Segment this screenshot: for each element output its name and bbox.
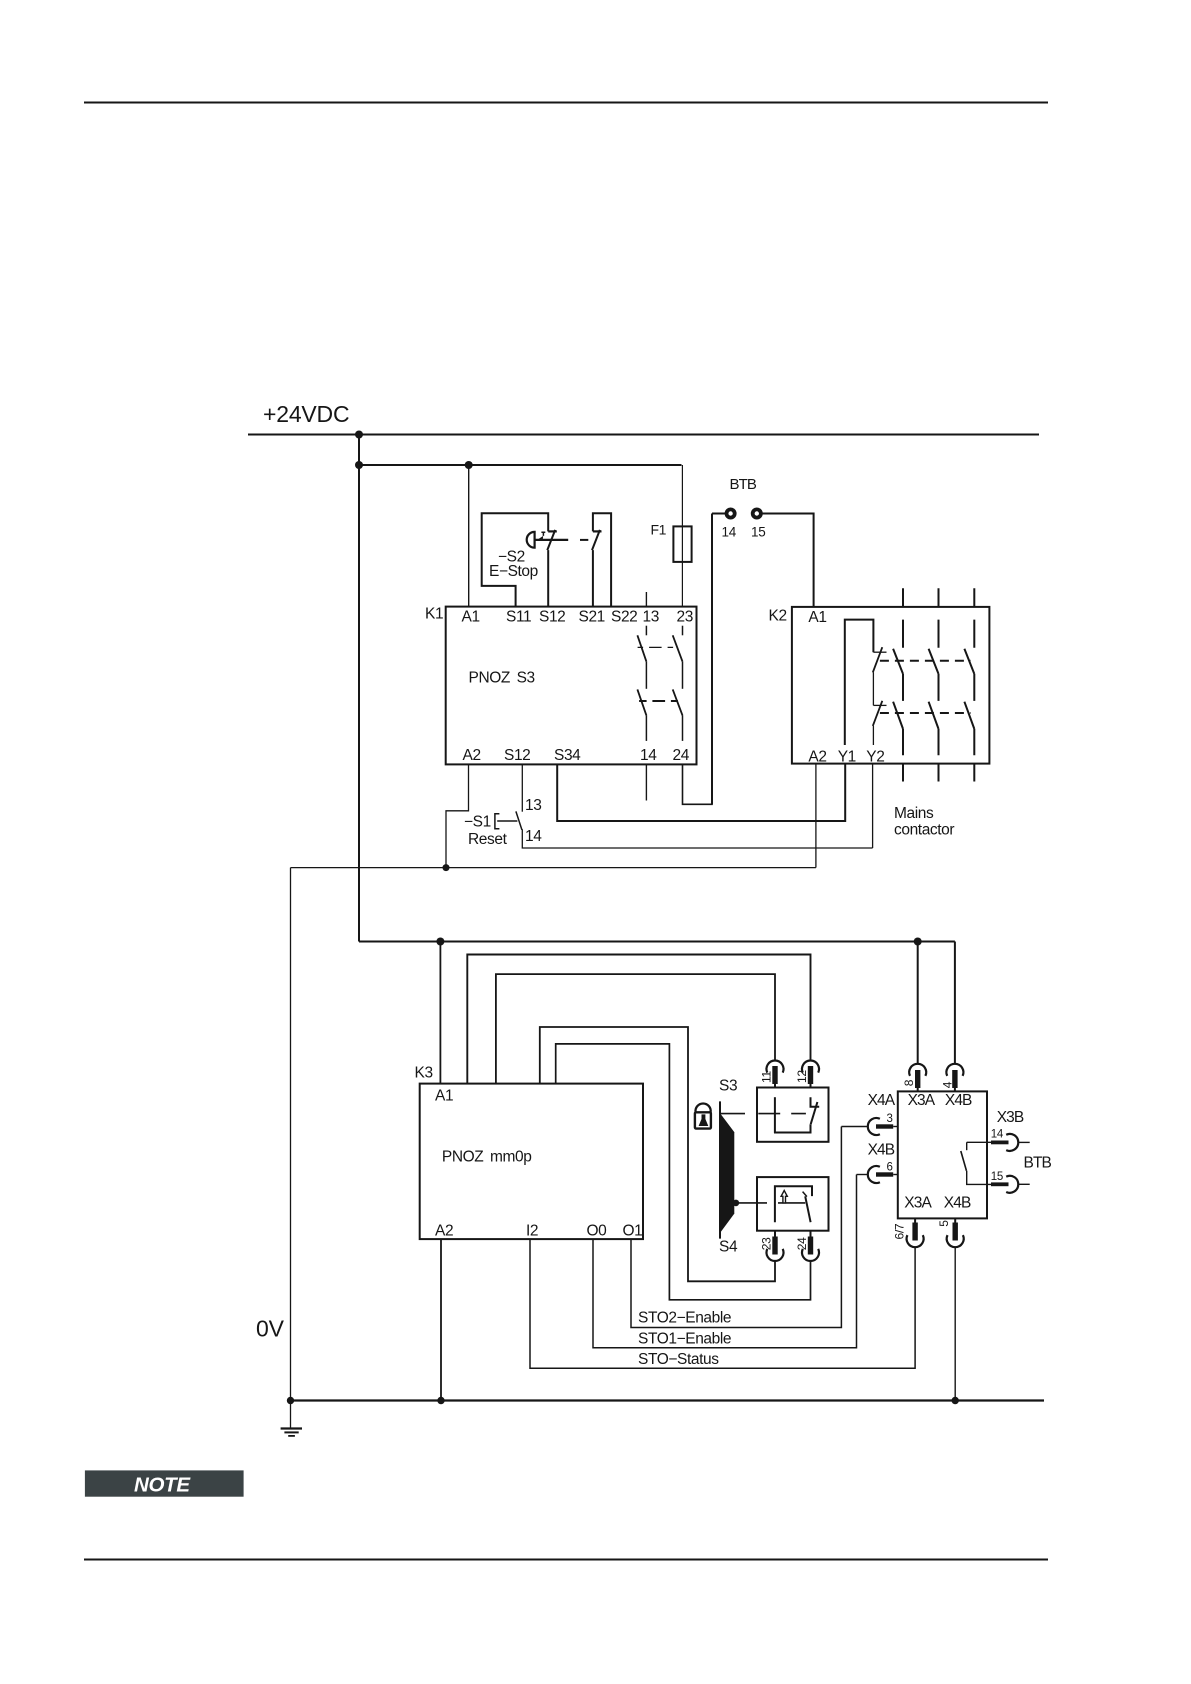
connector S4 pin 23 xyxy=(775,1231,811,1237)
wire K2 A2 drop xyxy=(815,764,817,868)
svg-text:0V: 0V xyxy=(256,1316,285,1342)
contact BTB inside drive xyxy=(967,1141,991,1143)
svg-text:contactor: contactor xyxy=(894,822,954,839)
contactor K2 box xyxy=(792,607,990,764)
svg-text:24: 24 xyxy=(673,747,690,764)
wire I2 STO-Status xyxy=(530,1239,915,1368)
svg-text:X3A: X3A xyxy=(904,1195,932,1212)
svg-text:14: 14 xyxy=(991,1128,1004,1140)
svg-text:I2: I2 xyxy=(526,1223,538,1240)
coil feedback path Y1 xyxy=(845,620,874,745)
contact K1 23-24 xyxy=(682,626,684,636)
svg-text:A1: A1 xyxy=(435,1088,453,1105)
wire 14 stub xyxy=(645,764,647,800)
svg-text:S22: S22 xyxy=(611,609,637,626)
svg-text:S4: S4 xyxy=(719,1239,738,1256)
svg-text:Reset: Reset xyxy=(468,831,508,848)
wire lower +24 branch xyxy=(359,941,955,943)
contact K1 13-14 xyxy=(645,592,647,607)
junction branch left xyxy=(355,461,363,469)
wire X4B-6 lead xyxy=(857,1174,869,1176)
svg-text:E−Stop: E−Stop xyxy=(489,563,538,580)
svg-text:K2: K2 xyxy=(769,608,787,625)
junction on +24VDC bus xyxy=(355,431,363,439)
svg-text:K1: K1 xyxy=(425,606,443,623)
wire branch bus y465 xyxy=(359,464,682,466)
svg-text:K3: K3 xyxy=(415,1065,433,1082)
svg-text:14: 14 xyxy=(640,747,657,764)
svg-text:NOTE: NOTE xyxy=(134,1474,191,1497)
pole 1 xyxy=(880,588,974,781)
lock icon xyxy=(695,1103,710,1112)
wire F1 drop to 23 xyxy=(681,465,683,607)
svg-text:23: 23 xyxy=(677,609,693,626)
svg-text:S3: S3 xyxy=(719,1078,737,1095)
wire O1 STO2-Enable xyxy=(631,1127,841,1328)
guard door line xyxy=(719,1101,721,1238)
drive box xyxy=(898,1091,987,1218)
svg-text:PNOZ mm0p: PNOZ mm0p xyxy=(442,1149,532,1166)
S3 actuator rod xyxy=(721,1113,806,1115)
svg-text:A1: A1 xyxy=(808,609,826,626)
connector X4B-4 xyxy=(946,1064,963,1076)
svg-text:X4B: X4B xyxy=(944,1195,971,1212)
S4 actuator rod with dot xyxy=(733,1200,740,1207)
svg-text:3: 3 xyxy=(887,1113,893,1125)
svg-text:S11: S11 xyxy=(506,609,531,626)
pole 2 xyxy=(929,588,939,781)
svg-text:15: 15 xyxy=(751,525,765,540)
svg-text:X4A: X4A xyxy=(868,1092,896,1109)
svg-text:6: 6 xyxy=(887,1161,893,1173)
contact S11-S12 xyxy=(548,530,557,532)
fuse F1 xyxy=(673,526,691,562)
connector S3 pin 11 xyxy=(767,1061,820,1073)
svg-text:A2: A2 xyxy=(808,749,826,766)
svg-text:X4B: X4B xyxy=(945,1092,972,1109)
connector X4B-6 xyxy=(868,1166,880,1183)
linkage dashes K2 xyxy=(880,660,971,662)
svg-text:O1: O1 xyxy=(623,1223,643,1240)
connector X3B-14 xyxy=(991,1141,1009,1145)
connector X3A-8 xyxy=(909,1064,926,1076)
connector X3A-6/7 xyxy=(915,1218,955,1222)
wire K3 to S4 23 xyxy=(540,1027,775,1281)
wire A2 rail xyxy=(291,867,816,869)
pole 3 xyxy=(964,588,974,781)
mushroom head xyxy=(527,532,535,548)
switch S3 guard box xyxy=(757,1088,829,1142)
svg-text:4: 4 xyxy=(940,1081,954,1088)
relay K1 PNOZ S3 box xyxy=(446,607,697,765)
svg-text:12: 12 xyxy=(795,1070,809,1083)
wire K3 to S3 11 xyxy=(496,974,775,1084)
svg-text:STO2−Enable: STO2−Enable xyxy=(638,1310,731,1327)
svg-text:A1: A1 xyxy=(462,609,480,626)
svg-text:F1: F1 xyxy=(651,522,667,538)
svg-text:Y2: Y2 xyxy=(866,749,884,766)
contact S21-S22 xyxy=(593,530,602,532)
wire A1 drop xyxy=(468,465,470,607)
svg-text:A2: A2 xyxy=(463,747,481,764)
top rule xyxy=(84,102,1048,104)
wire vertical x359 xyxy=(358,435,360,942)
svg-text:X3B: X3B xyxy=(997,1109,1024,1126)
svg-text:+24VDC: +24VDC xyxy=(263,401,349,427)
wire K3 A2 to 0V xyxy=(440,1239,442,1400)
wire K3 to S4 24 xyxy=(556,1044,811,1300)
wire 0V rail xyxy=(291,1399,1045,1401)
switch S4 box xyxy=(757,1177,829,1231)
svg-text:A2: A2 xyxy=(435,1223,453,1240)
svg-text:14: 14 xyxy=(525,828,542,845)
svg-text:13: 13 xyxy=(643,609,659,626)
svg-text:BTB: BTB xyxy=(1024,1155,1052,1172)
connector X4B-5 xyxy=(953,1223,958,1241)
svg-text:Mains: Mains xyxy=(894,805,934,822)
svg-text:15: 15 xyxy=(991,1171,1003,1183)
svg-text:S21: S21 xyxy=(579,609,605,626)
svg-text:S34: S34 xyxy=(554,747,581,764)
switch S1 reset xyxy=(516,811,522,829)
svg-text:S12: S12 xyxy=(539,609,565,626)
bottom rule xyxy=(84,1559,1048,1561)
wire 24 to BTB 14 xyxy=(683,519,713,804)
svg-text:−S1: −S1 xyxy=(464,814,491,831)
S4 contact internals xyxy=(775,1186,812,1222)
ground xyxy=(290,1401,292,1429)
connector X3B-15 xyxy=(991,1182,1009,1186)
linkage dashes K1 xyxy=(638,646,679,648)
svg-text:11: 11 xyxy=(760,1071,774,1083)
NOTE badge xyxy=(85,1470,244,1496)
guard door wedge xyxy=(720,1113,734,1233)
wire S12 to reset xyxy=(521,764,523,811)
switch S2 bracket right xyxy=(593,513,611,607)
wire K3 to S3 12 xyxy=(467,955,810,1084)
connector X4A-3 xyxy=(868,1118,880,1135)
wire X4B-5 to 0V xyxy=(954,1247,956,1401)
svg-text:14: 14 xyxy=(722,525,737,540)
junction branch A1 xyxy=(465,461,473,469)
aux contact 1 xyxy=(873,651,886,653)
aux contact 2 xyxy=(873,704,886,706)
svg-text:13: 13 xyxy=(525,797,541,814)
svg-text:23: 23 xyxy=(760,1237,774,1250)
svg-text:STO−Status: STO−Status xyxy=(638,1351,719,1368)
wire K3 A1 drop xyxy=(439,942,441,1084)
svg-text:24: 24 xyxy=(795,1237,809,1250)
connector S3 pin 12 xyxy=(808,1066,813,1084)
wire BTB15 to K2 A1 xyxy=(761,514,813,607)
wire X4A-3 lead xyxy=(841,1126,868,1128)
svg-text:BTB: BTB xyxy=(730,476,757,493)
relay K3 PNOZ mm0p box xyxy=(420,1084,643,1240)
svg-text:X3A: X3A xyxy=(908,1092,936,1109)
svg-text:X4B: X4B xyxy=(868,1142,895,1159)
wire O0 STO1-Enable xyxy=(593,1175,857,1348)
S3 contact internals xyxy=(774,1097,776,1133)
svg-text:PNOZ S3: PNOZ S3 xyxy=(469,670,535,687)
svg-text:Y1: Y1 xyxy=(838,749,856,766)
wire +24VDC bus xyxy=(248,434,1039,436)
wire X3A-8 drop xyxy=(917,942,919,1064)
wire K1 A2 to 0V net xyxy=(446,764,469,867)
wire X4B-4 drop xyxy=(954,942,956,1064)
svg-text:STO1−Enable: STO1−Enable xyxy=(638,1331,731,1348)
svg-text:6/7: 6/7 xyxy=(892,1223,906,1239)
S4 arrow xyxy=(781,1191,787,1203)
svg-text:O0: O0 xyxy=(587,1223,608,1240)
wire left 0V vertical xyxy=(290,868,292,1401)
svg-text:S12: S12 xyxy=(504,747,530,764)
wire S34 to Y1 xyxy=(557,764,845,821)
svg-text:5: 5 xyxy=(937,1220,951,1227)
svg-text:8: 8 xyxy=(902,1079,916,1086)
switch S2 e-stop bracket left xyxy=(482,513,549,607)
